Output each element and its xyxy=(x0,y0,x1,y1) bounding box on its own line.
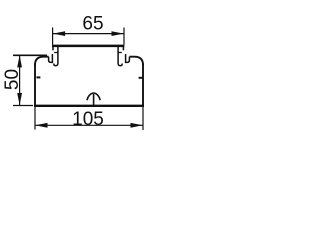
dimension 50 line xyxy=(19,55,21,106)
trunking body left top corner arc xyxy=(35,57,49,65)
dimension 105 arrow left xyxy=(35,123,47,128)
lid left end lip xyxy=(52,47,54,51)
marking arrow curved head xyxy=(87,93,100,100)
trunking body right top corner arc xyxy=(129,57,143,65)
dimension 50 arrow bottom xyxy=(17,93,22,105)
dimension 65 arrow left xyxy=(53,31,65,36)
lid left leg xyxy=(54,47,58,66)
dimension 65 extension line left xyxy=(52,28,54,45)
trunking body left inner rib xyxy=(37,76,41,78)
trunking body right inner rib xyxy=(139,77,143,79)
dimension 105 extension line right xyxy=(142,107,144,130)
dimension 65 extension line right xyxy=(123,28,125,45)
lid left leg barb xyxy=(54,52,58,54)
trunking body right wall xyxy=(142,64,144,107)
dimension 105 extension line left xyxy=(34,107,36,130)
dimension 50 extension line top xyxy=(13,54,47,56)
trunking body left wall xyxy=(34,64,36,107)
dimension 105 arrow right xyxy=(131,123,143,128)
svg-text:105: 105 xyxy=(72,109,104,130)
lid top xyxy=(52,45,124,48)
svg-text:50: 50 xyxy=(2,69,23,90)
marking arrow shaft inside body xyxy=(93,94,95,105)
trunking body bottom wall xyxy=(34,105,144,107)
dimension 105 line xyxy=(35,124,143,126)
trunking body right lip channel xyxy=(126,54,130,62)
lid right end lip xyxy=(122,47,124,51)
dimension 65 arrow right xyxy=(112,31,124,36)
svg-text:65: 65 xyxy=(82,14,103,35)
lid right leg xyxy=(118,47,122,66)
dimension 65 line xyxy=(53,33,124,35)
dimension 50 extension line bottom xyxy=(13,105,33,107)
lid right leg barb xyxy=(118,52,122,54)
trunking body left lip channel xyxy=(49,54,53,62)
dimension 50 arrow top xyxy=(17,55,22,67)
